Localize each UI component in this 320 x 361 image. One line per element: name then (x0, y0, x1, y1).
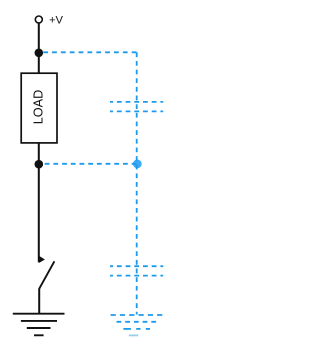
switch SW1 blade (39, 261, 54, 288)
ground (earth) (13, 314, 65, 336)
wire dashed: right rail vertical (136, 52, 138, 314)
node C (blue junction dot) (133, 160, 142, 169)
wire LOAD to node B (38, 143, 40, 164)
ground dashed (earth) (111, 315, 163, 329)
capacitor C1 (dashed plates) (110, 102, 163, 112)
resistor LOAD (box) (21, 73, 57, 143)
wire switch to ground (38, 288, 40, 314)
wire dashed: node A to right rail (43, 51, 137, 53)
wire node A to LOAD (38, 53, 40, 73)
wire terminal to node A (38, 23, 40, 53)
ground dashed shortest mark (129, 334, 139, 336)
node A (junction dot) (35, 49, 44, 58)
wire dashed: node B to node C (45, 163, 137, 165)
terminal +V (35, 16, 42, 23)
node B (junction dot) (35, 160, 44, 169)
svg-text:+V: +V (49, 15, 64, 27)
switch SW1 contact arrow (39, 256, 45, 263)
wire node B to switch (38, 164, 40, 262)
svg-text:LOAD: LOAD (32, 90, 46, 125)
capacitor C2 (dashed plates) (110, 266, 163, 275)
